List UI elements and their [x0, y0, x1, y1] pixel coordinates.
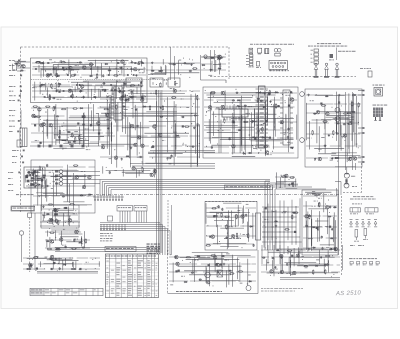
svg-text:AS 2510: AS 2510 — [335, 290, 362, 297]
